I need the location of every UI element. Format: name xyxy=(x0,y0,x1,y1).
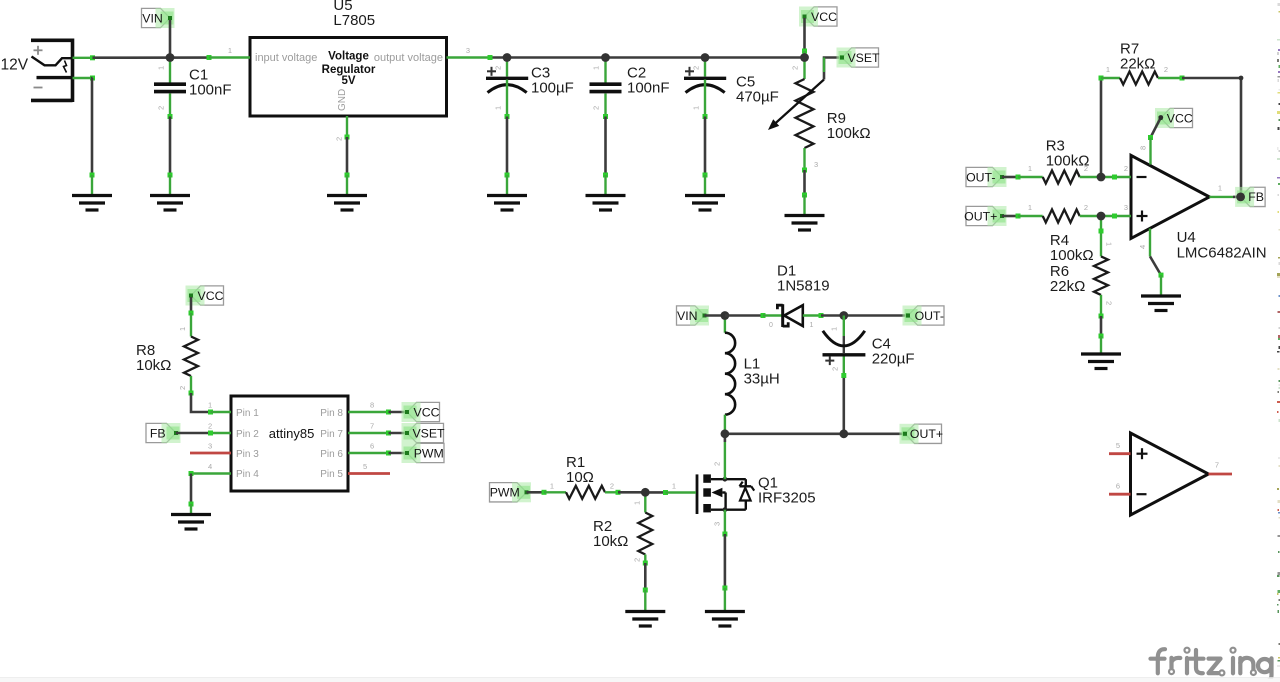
svg-text:VCC: VCC xyxy=(811,10,837,24)
ground at R2 xyxy=(625,610,665,613)
wire U5 gnd to ground xyxy=(345,135,350,140)
svg-text:1: 1 xyxy=(672,482,676,491)
svg-text:2: 2 xyxy=(335,137,344,141)
svg-text:IRF3205: IRF3205 xyxy=(758,490,816,507)
svg-text:PWM: PWM xyxy=(414,446,444,460)
pin attiny 8 xyxy=(348,411,389,413)
transistor Q1 IRF3205 xyxy=(696,474,699,514)
connector J1 12V barrel jack xyxy=(31,38,73,42)
capacitor C4 electrolytic xyxy=(843,316,845,337)
net label VSET top xyxy=(842,48,879,67)
wire R1 to gate node xyxy=(616,490,621,495)
svg-text:2: 2 xyxy=(633,558,642,562)
svg-text:1: 1 xyxy=(692,106,701,110)
svg-text:Pin 5: Pin 5 xyxy=(320,469,343,480)
svg-text:10kΩ: 10kΩ xyxy=(593,533,628,550)
svg-text:attiny85: attiny85 xyxy=(269,426,315,441)
svg-text:GND: GND xyxy=(337,89,348,111)
wire C4 to OUT+ rail xyxy=(841,373,846,378)
svg-text:Pin 4: Pin 4 xyxy=(236,469,259,480)
net label OUT- mid xyxy=(908,306,944,325)
pin spare 5 red stub xyxy=(1109,452,1131,455)
node U4 noninv xyxy=(1112,214,1117,219)
potentiometer R9 xyxy=(803,51,805,79)
wire VCC to R8 xyxy=(190,297,193,313)
svg-text:100µF: 100µF xyxy=(531,80,574,97)
wire OUT- to R3 xyxy=(1002,176,1018,179)
net label VIN mid xyxy=(677,306,705,325)
pin U4 inv xyxy=(1101,176,1131,178)
svg-text:Pin 2: Pin 2 xyxy=(236,429,259,440)
svg-text:VCC: VCC xyxy=(1167,111,1193,125)
node U4 inv xyxy=(1112,175,1117,180)
svg-text:Pin 8: Pin 8 xyxy=(320,408,343,419)
pin attiny 4 xyxy=(190,472,231,474)
svg-text:Pin 6: Pin 6 xyxy=(320,449,343,460)
svg-text:output voltage: output voltage xyxy=(374,52,443,64)
svg-text:100kΩ: 100kΩ xyxy=(827,125,871,142)
net label FB at Pin2 xyxy=(146,423,176,442)
svg-text:2: 2 xyxy=(692,66,701,70)
capacitor C3 electrolytic xyxy=(506,58,508,77)
pin ground C1 xyxy=(169,175,171,196)
pin U5 output 3 xyxy=(447,56,491,58)
wire VIN label to node xyxy=(169,20,172,58)
svg-text:470µF: 470µF xyxy=(736,89,779,106)
net label VCC top xyxy=(805,7,838,26)
wire C3 to ground xyxy=(505,114,510,119)
svg-text:2: 2 xyxy=(1124,164,1128,173)
right edge palette sliver xyxy=(1278,3,1280,6)
svg-text:1: 1 xyxy=(1218,184,1222,193)
svg-text:22kΩ: 22kΩ xyxy=(1050,278,1085,295)
ground at R9 xyxy=(785,214,825,217)
pin U4 noninv xyxy=(1101,215,1131,217)
net label OUT+ opamp xyxy=(966,206,1002,225)
svg-text:100nF: 100nF xyxy=(189,82,232,99)
svg-text:7: 7 xyxy=(370,422,374,431)
net label VIN xyxy=(142,8,171,27)
wire PWM to R1 xyxy=(527,491,545,494)
wire node to OUT- xyxy=(844,314,908,317)
wire R2 to ground xyxy=(643,561,648,566)
pin ground U4 xyxy=(1160,275,1162,296)
diode D1 1N5819 xyxy=(725,314,763,317)
svg-text:LMC6482AIN: LMC6482AIN xyxy=(1177,244,1267,261)
svg-text:1: 1 xyxy=(178,327,187,331)
pin spare 7 red stub xyxy=(1209,473,1233,476)
wire U4 out to FB xyxy=(1233,196,1241,199)
pin U4 out xyxy=(1209,196,1233,198)
resistor R7 xyxy=(1101,77,1120,79)
svg-text:5V: 5V xyxy=(341,75,355,87)
net label VSET at Pin7 xyxy=(407,423,444,442)
svg-text:33µH: 33µH xyxy=(744,371,780,388)
node L1/OUT+ xyxy=(721,429,730,438)
ground at 12V- xyxy=(72,194,112,197)
svg-text:OUT+: OUT+ xyxy=(964,209,997,223)
capacitor C1 xyxy=(169,58,171,83)
wire 12V+ to U5 input xyxy=(93,56,210,59)
svg-text:1: 1 xyxy=(157,66,166,70)
pin spare 6 red stub xyxy=(1109,493,1131,496)
pin Q1 drain xyxy=(724,442,726,479)
svg-text:VCC: VCC xyxy=(414,405,440,419)
svg-text:4: 4 xyxy=(1138,245,1147,249)
svg-text:2: 2 xyxy=(831,367,840,371)
svg-text:2: 2 xyxy=(713,462,722,466)
svg-text:3: 3 xyxy=(1124,203,1128,212)
wire OUT+ to R4 xyxy=(1002,215,1018,218)
svg-text:6: 6 xyxy=(370,442,374,451)
svg-text:0: 0 xyxy=(769,322,773,329)
capacitor C2 xyxy=(604,58,606,83)
pin ground U5 xyxy=(346,175,348,196)
ground at C5 xyxy=(685,194,725,197)
pin U4 vminus 4 xyxy=(1149,229,1151,257)
svg-text:8: 8 xyxy=(1139,146,1148,150)
wire VCC to node xyxy=(803,18,806,51)
wire C1 to ground xyxy=(168,114,173,119)
wire C2 to ground xyxy=(603,114,608,119)
node C4/OUT+ xyxy=(839,429,848,438)
wire OUT+ rail xyxy=(725,432,905,435)
resistor R2 xyxy=(644,492,646,512)
svg-text:1: 1 xyxy=(208,401,212,410)
svg-text:100kΩ: 100kΩ xyxy=(1050,247,1094,264)
svg-text:OUT-: OUT- xyxy=(966,170,995,184)
svg-text:1: 1 xyxy=(550,482,554,491)
wire R7 to FB xyxy=(1180,76,1185,81)
net label VCC at R8 xyxy=(191,286,224,305)
svg-text:12V: 12V xyxy=(1,57,29,74)
svg-text:3: 3 xyxy=(713,522,722,526)
wire gate node to Q1 xyxy=(645,491,665,494)
svg-text:PWM: PWM xyxy=(490,486,520,500)
svg-text:OUT-: OUT- xyxy=(915,309,944,323)
svg-text:100nF: 100nF xyxy=(627,80,670,97)
wire Pin8 to VCC xyxy=(386,410,391,415)
svg-text:VIN: VIN xyxy=(677,309,698,323)
op-amp U4 triangle xyxy=(1131,155,1209,238)
ground at Q1 xyxy=(705,610,745,613)
wire Pin6 to PWM xyxy=(386,451,391,456)
svg-text:2: 2 xyxy=(178,386,187,390)
wire inv node up to R7 xyxy=(1100,78,1103,177)
net label VCC opamp xyxy=(1161,108,1193,127)
svg-text:VIN: VIN xyxy=(142,11,163,25)
svg-text:1: 1 xyxy=(830,327,839,331)
node at C2 xyxy=(601,53,610,62)
pin attiny 7 xyxy=(348,432,389,434)
wire R8 to Pin1 xyxy=(189,391,194,396)
svg-text:Pin 3: Pin 3 xyxy=(236,449,259,460)
svg-text:VSET: VSET xyxy=(847,51,880,65)
pin ground C5 xyxy=(704,175,706,196)
svg-text:2: 2 xyxy=(1084,203,1088,212)
node at C5 xyxy=(701,53,710,62)
resistor R1 xyxy=(544,491,566,493)
svg-text:1: 1 xyxy=(494,106,503,110)
node at VCC/R9 xyxy=(800,53,809,62)
svg-text:220µF: 220µF xyxy=(872,351,915,368)
svg-text:4: 4 xyxy=(208,462,212,471)
net label VCC at Pin8 xyxy=(407,402,440,421)
ground at U5 xyxy=(327,194,367,197)
pin Q1 source xyxy=(724,510,726,534)
svg-text:7: 7 xyxy=(1215,461,1219,470)
wire C5 to ground xyxy=(703,114,708,119)
wire 5V rail xyxy=(490,56,805,59)
node at C3 xyxy=(503,53,512,62)
pin U5 gnd 2 xyxy=(346,116,348,137)
pin R9 wiper green xyxy=(823,58,825,73)
ground at R6 xyxy=(1081,352,1121,355)
net label FB opamp xyxy=(1241,187,1266,206)
node gate xyxy=(641,488,650,497)
pin ground R2 xyxy=(644,590,646,612)
svg-text:1: 1 xyxy=(1106,65,1110,74)
wire Pin4 to ground xyxy=(189,471,194,476)
svg-text:VCC: VCC xyxy=(198,289,224,303)
pin ground R9 xyxy=(803,195,805,216)
wire 12V- down xyxy=(91,78,94,175)
ground at U4 xyxy=(1141,294,1181,297)
wire R9 to ground xyxy=(802,168,807,173)
resistor R3 xyxy=(1018,176,1043,178)
pin attiny 1 xyxy=(211,411,232,413)
svg-text:2: 2 xyxy=(610,482,614,491)
svg-text:3: 3 xyxy=(466,46,470,55)
pin ground C2 xyxy=(604,175,606,196)
ground at C1 xyxy=(150,194,190,197)
resistor R8 xyxy=(190,313,192,337)
ground at C2 xyxy=(586,194,626,197)
resistor R6 xyxy=(1100,216,1102,256)
svg-text:FB: FB xyxy=(1248,190,1264,204)
ground at attiny xyxy=(171,513,211,516)
wire VCC to U4 pin8 xyxy=(1151,118,1161,138)
svg-text:FB: FB xyxy=(150,426,166,440)
fritzing logo xyxy=(1158,649,1165,673)
svg-text:1: 1 xyxy=(1028,203,1032,212)
svg-text:2: 2 xyxy=(157,106,166,110)
svg-text:3: 3 xyxy=(208,442,212,451)
pin attiny 5 red stub xyxy=(348,472,390,475)
node VIN/L1 xyxy=(721,311,730,320)
net label PWM input xyxy=(490,483,527,502)
pin ground J1 xyxy=(91,175,93,196)
bottom window edge xyxy=(0,677,1280,678)
svg-text:1: 1 xyxy=(592,66,601,70)
pin attiny 3 red stub xyxy=(190,452,231,455)
ground at C3 xyxy=(487,194,527,197)
pin U5 input 1 xyxy=(209,56,250,58)
svg-text:2: 2 xyxy=(1164,65,1168,74)
pin J1 plus xyxy=(73,57,93,59)
svg-text:1: 1 xyxy=(1105,242,1114,246)
svg-text:VSET: VSET xyxy=(412,426,445,440)
svg-text:2: 2 xyxy=(1105,301,1114,305)
resistor R4 xyxy=(1018,215,1043,217)
voltage regulator U5 box xyxy=(250,38,447,117)
svg-text:input voltage: input voltage xyxy=(255,52,317,64)
svg-text:10Ω: 10Ω xyxy=(566,469,594,486)
svg-text:Pin 1: Pin 1 xyxy=(236,408,259,419)
svg-text:2: 2 xyxy=(791,66,800,70)
svg-text:1: 1 xyxy=(633,501,642,505)
op-amp U4 spare half xyxy=(1131,433,1209,515)
wire R6 to ground xyxy=(1099,314,1104,319)
wire VIN to node xyxy=(705,314,725,317)
wire Pin7 to VSET xyxy=(386,431,391,436)
capacitor C5 electrolytic xyxy=(704,58,706,77)
wire VSET to R9 wiper xyxy=(824,58,842,80)
pin ground attiny xyxy=(190,504,192,515)
svg-text:1N5819: 1N5819 xyxy=(777,278,830,295)
svg-text:5: 5 xyxy=(1116,441,1120,450)
svg-text:1: 1 xyxy=(228,46,232,55)
node FB xyxy=(1236,193,1245,202)
pin J1 minus xyxy=(73,77,93,79)
svg-text:5: 5 xyxy=(363,462,367,471)
svg-text:OUT+: OUT+ xyxy=(910,427,943,441)
svg-text:Voltage: Voltage xyxy=(328,51,369,63)
svg-text:2: 2 xyxy=(208,422,212,431)
svg-text:100kΩ: 100kΩ xyxy=(1046,153,1090,170)
pin attiny 2 xyxy=(211,432,232,434)
node at C1 xyxy=(166,53,175,62)
svg-text:1: 1 xyxy=(1028,164,1032,173)
svg-text:8: 8 xyxy=(370,401,374,410)
svg-text:2: 2 xyxy=(592,106,601,110)
pin ground Q1 xyxy=(724,588,726,612)
svg-text:22kΩ: 22kΩ xyxy=(1120,56,1155,73)
svg-text:1: 1 xyxy=(810,322,814,329)
net label PWM at Pin6 xyxy=(407,443,444,462)
svg-text:2: 2 xyxy=(494,66,503,70)
wire FB to Pin2 xyxy=(176,432,211,435)
pin ground C3 xyxy=(506,175,508,196)
svg-text:10kΩ: 10kΩ xyxy=(136,357,171,374)
inductor L1 xyxy=(724,316,726,333)
svg-text:3: 3 xyxy=(814,160,818,169)
net label OUT- opamp xyxy=(966,167,1002,186)
pin attiny 6 xyxy=(348,452,389,454)
svg-text:Pin 7: Pin 7 xyxy=(320,429,343,440)
IC U1 attiny85 box xyxy=(231,396,348,491)
pin U4 vplus 8 xyxy=(1149,138,1151,165)
wire U4 vminus to ground xyxy=(1150,256,1161,275)
net label OUT+ mid xyxy=(905,424,942,443)
svg-text:L7805: L7805 xyxy=(333,12,375,29)
pin ground R6 xyxy=(1100,336,1102,354)
wire Q1 source to ground xyxy=(724,534,727,588)
svg-text:6: 6 xyxy=(1116,482,1120,491)
node D1/C4 xyxy=(839,311,848,320)
